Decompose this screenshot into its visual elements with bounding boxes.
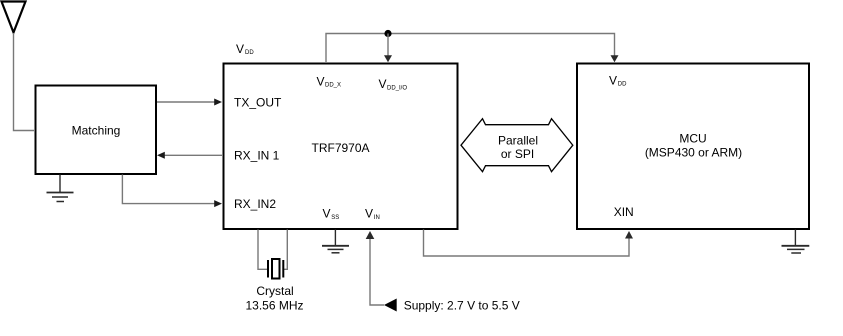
wire VDD branch to VDD_I/O [387, 34, 389, 57]
block Matching network [36, 86, 157, 175]
wire antenna to Matching [14, 33, 35, 131]
wire crystal left leg [258, 230, 268, 270]
svg-text:DD: DD [618, 82, 627, 88]
block U1 TRF7970A [224, 64, 458, 230]
wire crystal right leg [283, 230, 287, 270]
wire SYS_CLK: TRF7970A to MCU XIN [424, 230, 630, 257]
svg-text:V: V [323, 206, 331, 220]
wire TX_OUT: Matching to TRF7970A [157, 101, 215, 103]
svg-text:XIN: XIN [614, 205, 634, 219]
svg-text:RX_IN2: RX_IN2 [234, 197, 276, 211]
ground VSS under TRF7970A [322, 230, 349, 253]
svg-text:DD_X: DD_X [325, 83, 341, 89]
pin VIN [365, 206, 380, 220]
svg-text:V: V [317, 74, 325, 88]
junction dot on VDD rail [384, 30, 391, 37]
svg-text:TRF7970A: TRF7970A [312, 141, 370, 155]
svg-text:V: V [379, 77, 387, 91]
wire VIN supply [370, 239, 384, 306]
block U2 MCU [577, 64, 809, 230]
antenna ANT1 [2, 2, 26, 33]
svg-text:RX_IN 1: RX_IN 1 [234, 149, 280, 163]
ground under MCU [782, 230, 810, 254]
svg-text:V: V [236, 42, 244, 56]
pin VDD_X [317, 74, 342, 88]
svg-text:V: V [609, 73, 617, 87]
pin VSS [323, 206, 340, 220]
pin VDD_I/O [379, 77, 408, 91]
svg-text:Parallel: Parallel [498, 133, 538, 147]
svg-text:DD: DD [245, 50, 254, 56]
svg-text:SS: SS [331, 215, 339, 221]
svg-text:or SPI: or SPI [501, 147, 534, 161]
svg-text:13.56 MHz: 13.56 MHz [245, 299, 303, 313]
wire RX_IN2: Matching bottom to TRF7970A [122, 175, 214, 204]
wire VDD rail (top) [326, 34, 615, 63]
arrowhead VDD into MCU [611, 55, 619, 62]
pin VDD (MCU) [609, 73, 627, 87]
svg-text:Matching: Matching [72, 123, 121, 137]
svg-text:MCU: MCU [679, 131, 706, 145]
node VDD label above TRF7970A [236, 42, 254, 56]
svg-text:Supply: 2.7 V to 5.5 V: Supply: 2.7 V to 5.5 V [404, 299, 520, 313]
bus arrow Parallel or SPI [461, 119, 573, 172]
svg-text:(MSP430 or ARM): (MSP430 or ARM) [645, 146, 742, 160]
svg-text:V: V [365, 206, 373, 220]
arrowhead supply feed (left-pointing) [384, 299, 397, 312]
svg-text:DD_I/O: DD_I/O [387, 85, 407, 91]
wire RX_IN 1: TRF7970A to Matching [165, 154, 223, 156]
svg-text:IN: IN [374, 215, 380, 221]
crystal Y1 13.56 MHz [268, 259, 283, 279]
svg-text:TX_OUT: TX_OUT [234, 96, 282, 110]
ground under Matching [47, 175, 74, 202]
svg-text:Crystal: Crystal [256, 284, 293, 298]
